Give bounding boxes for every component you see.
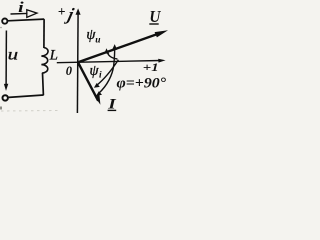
svg-text:ψ: ψ [90, 63, 100, 79]
svg-text:+1: +1 [143, 60, 159, 74]
angle arc psi_i [97, 60, 119, 86]
terminal (top-left) [2, 19, 7, 24]
svg-text:L: L [49, 48, 58, 64]
svg-text:0: 0 [66, 64, 73, 78]
wire (bottom) [9, 95, 44, 97]
vector U [78, 33, 161, 63]
paper background [0, 0, 169, 116]
svg-text:U: U [149, 7, 161, 26]
axis +j (imaginary axis) [76, 11, 79, 113]
current arrow i [11, 12, 28, 15]
svg-text:i: i [18, 0, 24, 16]
scan speck [0, 27, 2, 29]
axis +1 (real axis) [57, 61, 161, 63]
svg-text:i: i [99, 71, 102, 81]
svg-text:u: u [8, 46, 19, 63]
scan speck [0, 107, 2, 110]
angle arc psi_u [107, 52, 117, 60]
svg-text:u: u [95, 36, 100, 46]
svg-text:+: + [58, 4, 66, 19]
angle arc phi (from I to U) [99, 47, 115, 94]
voltage arrow u [5, 31, 7, 86]
svg-text:φ=+90°: φ=+90° [117, 76, 167, 92]
wire (right, above inductor) [43, 19, 45, 48]
scan noise dashes [1, 110, 58, 113]
wire (right, below inductor) [42, 73, 45, 95]
terminal (bottom-left) [2, 95, 7, 100]
inductor L [41, 48, 48, 74]
wire (top) [8, 19, 45, 21]
vector I [78, 62, 98, 101]
